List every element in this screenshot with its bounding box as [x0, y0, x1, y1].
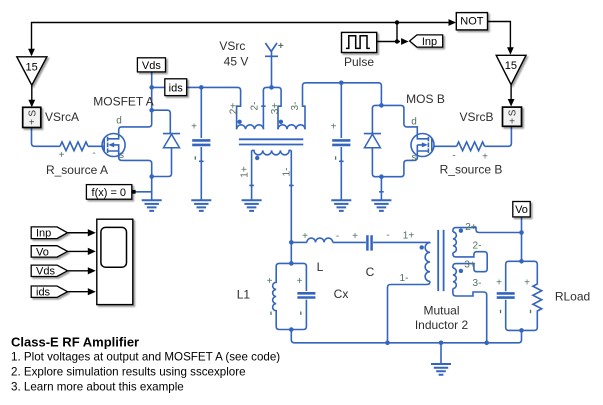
- svg-text:Class-E RF Amplifier: Class-E RF Amplifier: [11, 335, 139, 350]
- power supply V+ symbol VSrc: [265, 43, 278, 87]
- wire L to C: [333, 241, 366, 243]
- svg-text:2. Explore simulation results: 2. Explore simulation results using ssce…: [11, 366, 246, 379]
- winding 1: [252, 150, 292, 154]
- svg-text:1. Plot voltages at output and: 1. Plot voltages at output and MOSFET A …: [11, 351, 280, 364]
- svg-text:Vds: Vds: [36, 266, 55, 278]
- svg-text:+: +: [267, 276, 273, 287]
- arrow into gain A: [28, 49, 35, 57]
- svg-text:1+: 1+: [240, 166, 251, 178]
- node MOSFET A source junction: [149, 174, 154, 179]
- wire Inp to scope: [68, 232, 89, 234]
- tick (Cx): [300, 312, 302, 315]
- node MOS B source junction: [379, 174, 384, 179]
- winding 3: [278, 125, 305, 130]
- node winding 3- rail junction: [484, 341, 489, 346]
- ground: [431, 364, 451, 375]
- capacitor C1: [192, 140, 210, 145]
- svg-text:Pulse: Pulse: [344, 55, 374, 69]
- winding 1 polarity dot: [255, 156, 259, 160]
- wire NOT to gain B: [488, 22, 511, 49]
- from tag Inp: [31, 227, 67, 239]
- svg-text:MOSFET A: MOSFET A: [93, 95, 153, 109]
- node Vds junction: [149, 85, 154, 90]
- arrow into Inp goto tag: [401, 38, 409, 45]
- tick (cap C1): [194, 156, 196, 159]
- svg-text:Vds: Vds: [142, 60, 161, 72]
- winding 2 polarity dot: [237, 120, 241, 124]
- svg-text:3-: 3-: [290, 102, 301, 111]
- wire source to ground: [151, 177, 153, 201]
- svg-text:2+: 2+: [229, 103, 240, 115]
- svg-text:VSrcA: VSrcA: [45, 110, 79, 124]
- transistor MOSFET A: [102, 110, 152, 176]
- wire Vo label to output node: [521, 217, 523, 261]
- svg-text:Inductor 2: Inductor 2: [415, 318, 469, 332]
- winding 3 polarity dot: [459, 269, 463, 273]
- svg-text:+: +: [59, 150, 65, 161]
- wire junction down to pulse output: [396, 23, 398, 42]
- svg-text:d: d: [116, 116, 122, 127]
- from tag Vo: [31, 246, 67, 257]
- wire rail to ground: [440, 343, 442, 364]
- arrow into NOT: [449, 19, 457, 26]
- mutual inductor 2 winding 1: [425, 242, 430, 281]
- svg-text:Vo: Vo: [515, 204, 528, 216]
- svg-text:2-: 2-: [250, 102, 261, 111]
- wire winding 3- to MOS B drain net: [303, 83, 382, 130]
- inductor L1 branch: [273, 263, 292, 329]
- label box Vds: [137, 58, 165, 72]
- svg-text:1+: 1+: [403, 231, 415, 242]
- node L1 loop bottom: [289, 327, 294, 332]
- wire L node to loop top: [290, 242, 292, 263]
- svg-text:+: +: [302, 231, 308, 242]
- node RLoad loop bottom: [519, 328, 524, 333]
- svg-text:Cx: Cx: [334, 287, 349, 301]
- svg-text:3. Learn more about this examp: 3. Learn more about this example: [11, 381, 184, 394]
- svg-text:R_source B: R_source B: [440, 163, 503, 177]
- svg-text:Vo: Vo: [36, 246, 49, 258]
- goto tag Inp: [410, 35, 443, 47]
- capacitor C2 top lead: [340, 83, 342, 138]
- node L branch junction: [289, 240, 294, 245]
- node VSrc supply junction: [269, 85, 274, 90]
- ground: [191, 200, 211, 211]
- label box ids: [165, 79, 187, 96]
- wire winding 3- to bottom rail: [453, 289, 487, 343]
- resistor R_source A: [60, 142, 88, 151]
- wire Vds to scope: [68, 270, 89, 272]
- winding 2: [237, 125, 264, 129]
- wire gain A to VSrcA: [31, 85, 33, 100]
- node RLoad loop top: [519, 259, 524, 264]
- svg-text:VSrc: VSrc: [219, 39, 245, 53]
- arrow into VSrcB: [508, 99, 515, 107]
- solver port stub: [132, 190, 136, 194]
- node cap C2 tap: [339, 81, 344, 86]
- ground: [331, 200, 351, 211]
- transistor MOS B: [381, 134, 434, 177]
- from tag ids: [31, 286, 67, 297]
- svg-text:Inp: Inp: [36, 228, 51, 240]
- svg-text:S: S: [27, 110, 38, 117]
- node winding 1- rail junction: [385, 341, 390, 346]
- svg-text:-: -: [92, 148, 95, 159]
- wire winding 1- down to L node: [289, 150, 294, 242]
- svg-text:1-: 1-: [400, 273, 409, 284]
- gain block 15 (B): [496, 55, 526, 84]
- node L1 loop top: [289, 261, 294, 266]
- node cap A tap: [199, 85, 204, 90]
- wire R_source A to MOSFET A gate: [88, 145, 104, 147]
- svg-text:1-: 1-: [282, 168, 293, 177]
- ground: [242, 200, 262, 211]
- wire winding 2- / 3+ supply bridge: [261, 87, 281, 129]
- svg-text:ids: ids: [36, 287, 51, 299]
- wire f(x) solver tap: [135, 191, 151, 193]
- capacitor C2: [332, 140, 350, 145]
- svg-text:15: 15: [25, 62, 37, 74]
- wire drain to diode A: [152, 110, 171, 133]
- svg-text:L1: L1: [237, 288, 251, 302]
- wire winding 1- to bottom rail: [388, 281, 431, 342]
- svg-text:+: +: [509, 116, 515, 127]
- svg-text:+: +: [482, 152, 488, 163]
- svg-text:s: s: [412, 153, 417, 164]
- arrow into gain B: [507, 47, 514, 55]
- svg-text:-: -: [386, 230, 389, 241]
- svg-text:+: +: [352, 231, 358, 242]
- wire winding 2- to 3+ series bridge: [453, 252, 487, 272]
- diode D1: [152, 134, 180, 177]
- solver block f(x)=0: [86, 185, 131, 200]
- svg-text:+: +: [496, 278, 502, 289]
- svg-text:R_source A: R_source A: [46, 163, 108, 177]
- resistor R_source B: [457, 142, 485, 151]
- ground: [142, 200, 162, 211]
- wire ids to scope: [68, 291, 89, 293]
- from tag Vds: [31, 265, 67, 276]
- svg-text:MOS B: MOS B: [406, 92, 445, 106]
- source block VSrcA: [23, 107, 41, 127]
- junction pulse output: [395, 39, 399, 43]
- svg-text:+: +: [331, 122, 337, 133]
- capacitor Cx: [297, 293, 315, 297]
- capacitor C1 top lead: [200, 87, 202, 138]
- svg-text:2+: 2+: [465, 222, 477, 233]
- capacitor Cx bottom lead: [291, 300, 306, 330]
- node rail ground junction: [439, 341, 444, 346]
- source block Pulse: [342, 32, 377, 52]
- scope block: [97, 219, 133, 304]
- capacitor C3 bottom lead: [506, 300, 522, 331]
- capacitor C3 branch: [506, 261, 522, 291]
- wire R_source B to VSrcB: [485, 126, 512, 146]
- wire MOS B gate lead: [434, 145, 457, 147]
- svg-text:+: +: [29, 117, 35, 128]
- wire VSrcA output to R_source A: [32, 128, 61, 147]
- tick (cap C3): [500, 310, 502, 313]
- wire C to mutual inductor 2 winding 1+: [373, 241, 430, 243]
- svg-text:2-: 2-: [473, 241, 482, 252]
- svg-text:-: -: [336, 231, 339, 242]
- svg-text:+: +: [524, 278, 530, 289]
- wire source to ground: [379, 177, 384, 201]
- svg-text:s: s: [119, 150, 124, 161]
- svg-text:45 V: 45 V: [224, 55, 249, 69]
- diode D2: [364, 134, 382, 177]
- node Vo junction: [519, 230, 524, 235]
- gain block 15 (A): [17, 57, 47, 85]
- tick (L1): [270, 312, 272, 315]
- arrow into VSrcA: [28, 100, 35, 108]
- mutual inductor 2 winding 2: [453, 232, 456, 253]
- svg-text:d: d: [411, 117, 417, 128]
- svg-text:15: 15: [505, 60, 517, 72]
- svg-text:L: L: [317, 260, 324, 274]
- wire gain B to VSrcB: [510, 85, 512, 100]
- svg-text:+: +: [278, 41, 284, 52]
- pulse wave icon: [346, 36, 370, 49]
- tick (RLoad): [530, 310, 532, 313]
- wire winding 2+ to Vo node: [453, 228, 522, 233]
- wire drain node to diode D2: [372, 105, 381, 133]
- svg-text:3-: 3-: [473, 278, 482, 289]
- wire drain run through ids to winding 2+: [152, 87, 241, 129]
- wire winding 1+ to ground: [249, 150, 254, 200]
- svg-text:Inp: Inp: [422, 36, 437, 48]
- svg-text:RLoad: RLoad: [555, 290, 590, 304]
- wire Pulse output: [377, 41, 400, 43]
- svg-text:VSrcB: VSrcB: [459, 110, 493, 124]
- inductor L: [307, 238, 333, 242]
- capacitor C: [367, 235, 371, 250]
- winding 3 polarity dot: [279, 120, 283, 124]
- winding 1 polarity dot: [420, 245, 424, 249]
- mutual inductor 2 winding 3: [453, 268, 456, 288]
- junction pulse top branch: [395, 20, 399, 24]
- wire drain node to MOS B: [381, 105, 428, 138]
- resistor RLoad branch: [522, 261, 542, 330]
- source block VSrcB: [503, 107, 522, 126]
- tick (cap C2): [335, 156, 337, 159]
- winding 2 polarity dot: [459, 229, 463, 233]
- node MOS B drain junction: [379, 103, 384, 108]
- mutual inductor 1 core: [239, 139, 303, 144]
- wire Vo to scope: [68, 250, 89, 252]
- capacitor C2 bottom lead: [339, 147, 344, 200]
- wire pulse net to gain A and NOT: [32, 23, 455, 56]
- svg-text:3+: 3+: [464, 260, 476, 271]
- svg-text:ids: ids: [169, 83, 184, 95]
- capacitor C1 bottom lead: [199, 147, 204, 200]
- ground: [371, 200, 391, 211]
- svg-text:Mutual: Mutual: [423, 304, 459, 318]
- scope screen: [101, 227, 127, 267]
- capacitor C3: [497, 293, 515, 297]
- wire Vds label to drain node: [151, 72, 153, 110]
- svg-text:f(x) = 0: f(x) = 0: [92, 187, 127, 199]
- svg-text:3+: 3+: [270, 103, 281, 115]
- svg-text:C: C: [366, 265, 375, 279]
- logic block NOT: [456, 13, 487, 30]
- svg-text:NOT: NOT: [460, 16, 484, 28]
- svg-text:+: +: [191, 122, 197, 133]
- node MOSFET A drain junction: [149, 108, 154, 113]
- svg-text:-: -: [452, 151, 455, 162]
- svg-text:S: S: [508, 109, 519, 116]
- label box Vo: [513, 202, 530, 217]
- wire bottom rail: [291, 330, 521, 343]
- svg-text:+: +: [297, 276, 303, 287]
- capacitor Cx branch: [291, 263, 306, 291]
- wire node to inductor L: [291, 241, 307, 243]
- mutual inductor 2 core: [438, 230, 443, 291]
